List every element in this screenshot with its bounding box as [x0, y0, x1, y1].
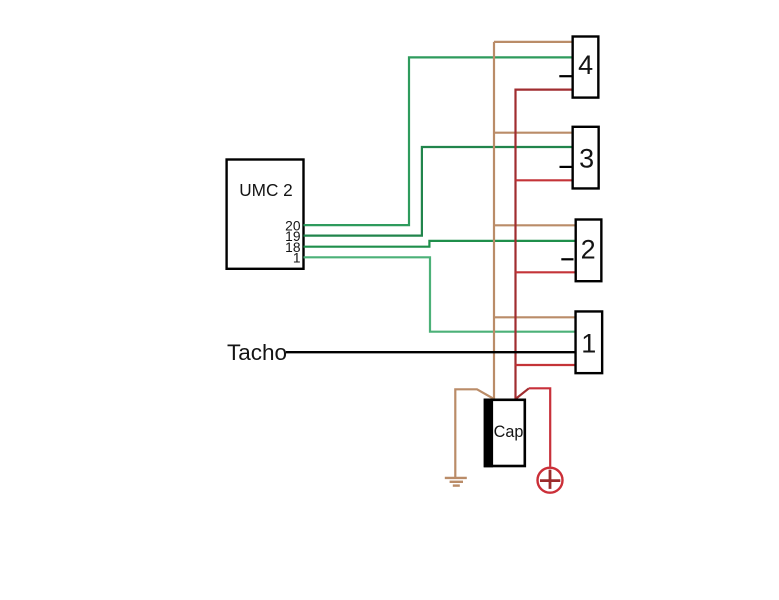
coil 3 box	[573, 127, 599, 189]
svg-text:Cap: Cap	[494, 423, 524, 441]
tan branch to coil 3	[494, 132, 573, 134]
svg-text:4: 4	[578, 50, 593, 80]
tan branch to ground	[455, 389, 494, 477]
dark red diagonal to battery feed	[516, 388, 529, 399]
tan branch to coil 1	[494, 316, 576, 318]
coil 4 negative stub	[559, 75, 571, 77]
UMC 2 controller box U1	[227, 160, 304, 269]
red stub to coil 2	[516, 271, 576, 273]
pin 19 label	[285, 229, 301, 244]
coil 1 box	[576, 311, 603, 373]
red stub to coil 3	[516, 179, 573, 181]
coil 3 negative stub	[560, 166, 572, 168]
pin 20 label	[285, 219, 301, 234]
coil 2 label	[581, 235, 596, 265]
ground symbol	[445, 478, 467, 486]
coil 4 box	[573, 37, 599, 98]
pin 1 label	[293, 250, 301, 265]
tan branch to coil 4	[494, 41, 573, 43]
svg-text:1: 1	[293, 250, 301, 265]
wire pin 18 to coil 2 (green)	[304, 241, 576, 247]
svg-text:3: 3	[579, 144, 594, 174]
svg-text:2: 2	[581, 235, 596, 265]
coil 1 label	[581, 328, 596, 358]
coil 2 box	[576, 220, 602, 282]
wire pin 19 to coil 3 (dark green)	[304, 147, 573, 236]
pin 18 label	[285, 240, 301, 255]
svg-text:1: 1	[581, 328, 596, 358]
capacitor Cap body	[484, 399, 525, 468]
battery plus symbol	[538, 468, 563, 493]
tan supply bus vertical	[493, 42, 495, 399]
red wire to battery plus	[529, 388, 550, 466]
coil 3 label	[579, 144, 594, 174]
wire pin 1 to coil 1 (light green)	[304, 257, 576, 331]
UMC 2 label	[239, 180, 292, 200]
Tacho wire to coil 1	[286, 351, 576, 353]
tan branch to coil 2	[494, 224, 576, 226]
Cap label	[494, 423, 524, 441]
wire pin 20 to coil 4 (green)	[304, 57, 573, 225]
Tacho label	[227, 340, 287, 365]
svg-text:UMC 2: UMC 2	[239, 180, 292, 200]
dark red wire coil 4 to cap bus	[516, 90, 573, 399]
svg-text:Tacho: Tacho	[227, 340, 287, 365]
coil 2 negative stub	[561, 258, 573, 260]
coil 4 label	[578, 50, 593, 80]
red stub to coil 1	[516, 364, 576, 366]
